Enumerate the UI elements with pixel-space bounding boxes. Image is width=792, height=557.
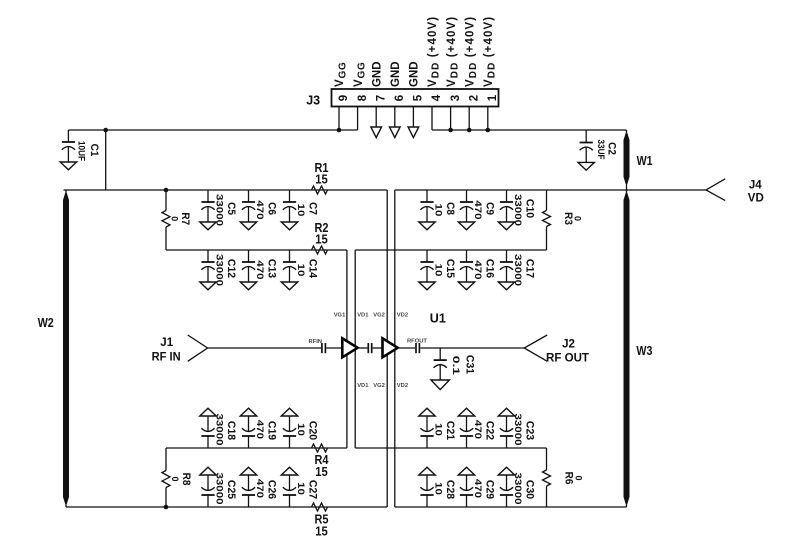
svg-text:10: 10 <box>433 204 443 217</box>
wire bottom rail left (row 5) <box>66 506 387 508</box>
capacitor C14 <box>281 250 318 290</box>
resistor R8 <box>162 448 192 507</box>
capacitor C12 <box>200 250 237 290</box>
wire net VD1 vertical <box>354 250 356 448</box>
svg-text:470: 470 <box>473 260 483 279</box>
svg-text:C26: C26 <box>266 480 278 499</box>
junction pin 1 <box>486 128 491 133</box>
svg-text:10: 10 <box>296 204 306 217</box>
capacitor C10 <box>498 190 535 230</box>
junction R7 top <box>164 188 169 193</box>
resistor R4 <box>312 444 329 479</box>
wire pin 7 stub <box>375 107 377 128</box>
connector J4 <box>706 179 764 205</box>
capacitor C23 <box>498 408 535 448</box>
wire RF output <box>420 347 524 349</box>
resistor R3 <box>543 190 583 250</box>
wire rail row 4 right <box>355 447 546 449</box>
wire VG rail left (row 2) <box>64 189 388 191</box>
capacitor C21 <box>419 408 456 448</box>
svg-text:C13: C13 <box>266 259 278 278</box>
svg-text:C28: C28 <box>444 480 456 499</box>
wire pin 2 stub <box>468 107 470 131</box>
svg-text:0: 0 <box>170 476 180 481</box>
resistor R7 <box>162 190 191 250</box>
svg-text:RF OUT: RF OUT <box>546 352 589 364</box>
svg-text:C17: C17 <box>524 259 536 278</box>
wire pin 6 stub <box>394 107 396 128</box>
svg-text:33000: 33000 <box>513 194 523 226</box>
wire W3 thick bar <box>624 193 630 200</box>
svg-text:C9: C9 <box>484 202 496 215</box>
svg-text:10: 10 <box>433 423 443 436</box>
svg-text:15: 15 <box>315 233 328 247</box>
capacitor C1 <box>60 130 100 170</box>
capacitor C18 <box>200 408 237 448</box>
capacitor C16 <box>458 250 495 290</box>
svg-text:J1: J1 <box>160 337 173 349</box>
capacitor C19 <box>240 408 277 448</box>
connector J1 <box>152 335 208 363</box>
capacitor RF input blocking <box>322 343 326 353</box>
svg-text:C22: C22 <box>484 421 496 440</box>
svg-text:C20: C20 <box>307 421 319 440</box>
svg-text:J3: J3 <box>306 94 320 108</box>
capacitor C30 <box>498 467 535 507</box>
svg-text:C1: C1 <box>88 144 100 157</box>
wire VDD rail top right <box>432 129 627 131</box>
svg-text:10: 10 <box>433 482 443 495</box>
resistor R5 <box>312 503 329 539</box>
svg-text:0.1: 0.1 <box>451 356 461 375</box>
resistor R2 <box>312 221 329 254</box>
svg-text:C31: C31 <box>463 355 475 374</box>
svg-text:C14: C14 <box>307 259 319 279</box>
svg-text:C29: C29 <box>484 480 496 499</box>
svg-text:C2: C2 <box>605 142 617 155</box>
wire VGG rail top left <box>68 129 357 131</box>
wire VD1 rail right (row 3) <box>355 249 546 251</box>
capacitor C27 <box>281 467 318 507</box>
wire pin 9 stub <box>338 107 340 131</box>
svg-text:C7: C7 <box>307 202 319 215</box>
svg-text:GND: GND <box>409 61 421 87</box>
svg-text:VG1: VG1 <box>334 312 346 318</box>
svg-text:470: 470 <box>255 420 265 439</box>
svg-text:10: 10 <box>296 264 306 277</box>
svg-text:C19: C19 <box>266 421 278 440</box>
svg-text:VD2: VD2 <box>397 383 408 389</box>
svg-text:R7: R7 <box>179 212 191 225</box>
svg-text:VD: VD <box>748 193 764 205</box>
svg-text:470: 470 <box>255 200 265 219</box>
capacitor C8 <box>419 190 456 230</box>
wire W3 stem <box>626 190 628 507</box>
svg-text:15: 15 <box>315 465 328 479</box>
wire W1 stem <box>626 130 628 190</box>
wire net VD2 vertical <box>394 190 396 507</box>
svg-text:15: 15 <box>315 525 328 539</box>
svg-text:470: 470 <box>473 420 483 439</box>
svg-text:4: 4 <box>431 94 443 101</box>
svg-text:C25: C25 <box>225 480 237 499</box>
svg-text:10UF: 10UF <box>77 141 87 161</box>
capacitor C25 <box>200 467 237 507</box>
svg-text:VD1: VD1 <box>357 312 369 318</box>
svg-text:C10: C10 <box>524 199 536 218</box>
ground pin 5 <box>408 127 419 138</box>
svg-text:33000: 33000 <box>513 473 523 505</box>
svg-text:2: 2 <box>468 95 480 101</box>
svg-text:W1: W1 <box>637 154 653 168</box>
svg-text:W3: W3 <box>636 344 652 358</box>
resistor R6 <box>543 448 584 507</box>
wire W1 thick bar <box>624 133 630 140</box>
svg-text:10: 10 <box>433 264 443 277</box>
junction VGG feed <box>103 128 108 133</box>
svg-text:33000: 33000 <box>214 414 224 446</box>
capacitor C26 <box>240 467 277 507</box>
wire W2 stem <box>65 190 67 507</box>
svg-text:C21: C21 <box>444 421 456 440</box>
svg-text:R8: R8 <box>180 473 192 486</box>
svg-text:J2: J2 <box>562 338 575 350</box>
svg-text:470: 470 <box>473 479 483 498</box>
svg-text:6: 6 <box>394 95 406 101</box>
svg-text:33000: 33000 <box>214 254 224 286</box>
wire VGG feed down <box>105 130 107 190</box>
wire rail row 4 left <box>166 447 347 449</box>
wire pin 1 stub <box>487 107 489 131</box>
svg-text:GND: GND <box>390 61 402 87</box>
svg-text:VG2: VG2 <box>373 312 385 318</box>
svg-text:C18: C18 <box>225 421 237 440</box>
svg-text:33UF: 33UF <box>596 140 606 160</box>
connector J2 <box>524 335 589 364</box>
svg-text:7: 7 <box>375 95 387 101</box>
capacitor C9 <box>458 190 495 230</box>
svg-text:5: 5 <box>413 94 425 101</box>
wire to second stage <box>373 347 383 349</box>
ground pin 6 <box>390 127 401 138</box>
svg-text:10: 10 <box>296 423 306 436</box>
ground pin 7 <box>371 127 382 138</box>
connector J3 <box>306 89 498 108</box>
svg-text:0: 0 <box>574 475 584 480</box>
svg-text:33000: 33000 <box>214 194 224 226</box>
svg-text:VD1: VD1 <box>357 383 369 389</box>
capacitor C15 <box>419 250 456 290</box>
capacitor C29 <box>458 467 495 507</box>
svg-text:C16: C16 <box>484 259 496 278</box>
svg-text:VG2: VG2 <box>373 383 385 389</box>
capacitor C22 <box>458 408 495 448</box>
svg-text:33000: 33000 <box>214 473 224 505</box>
junction pin 2 <box>467 128 472 133</box>
svg-text:VD2: VD2 <box>397 312 408 318</box>
capacitor C20 <box>281 408 318 448</box>
wire VG1 rail left (row 3) <box>166 249 347 251</box>
wire RF out of stage 2 <box>398 347 415 349</box>
wire interstage <box>358 347 368 349</box>
svg-text:470: 470 <box>255 479 265 498</box>
svg-text:C15: C15 <box>444 259 456 278</box>
svg-text:9: 9 <box>338 95 350 101</box>
capacitor interstage <box>368 343 371 353</box>
svg-text:W2: W2 <box>38 316 54 330</box>
wire VD rail right (row 2) to J4 <box>395 189 706 191</box>
wire RF input <box>208 347 321 349</box>
svg-text:33000: 33000 <box>513 254 523 286</box>
svg-text:10: 10 <box>296 482 306 495</box>
svg-text:33000: 33000 <box>513 414 523 446</box>
capacitor C28 <box>419 467 456 507</box>
svg-text:C27: C27 <box>307 480 319 499</box>
capacitor C31 <box>431 348 475 390</box>
svg-text:470: 470 <box>255 260 265 279</box>
svg-text:C30: C30 <box>524 480 536 499</box>
svg-text:3: 3 <box>450 95 462 101</box>
wire pin 5 stub <box>412 107 414 128</box>
svg-text:RFIN: RFIN <box>308 339 322 345</box>
svg-text:8: 8 <box>357 94 369 101</box>
svg-text:C5: C5 <box>225 202 237 215</box>
junction pin 3 <box>448 128 453 133</box>
junction pin 9 <box>337 128 342 133</box>
svg-text:C8: C8 <box>444 202 456 215</box>
capacitor C13 <box>240 250 277 290</box>
svg-text:C23: C23 <box>524 421 536 440</box>
amplifier stage 2 of U1 <box>383 338 398 357</box>
svg-text:J4: J4 <box>749 179 762 191</box>
capacitor C5 <box>200 190 237 230</box>
capacitor C6 <box>240 190 277 230</box>
svg-text:GND: GND <box>371 61 383 87</box>
wire pin 3 stub <box>450 107 452 131</box>
svg-text:U1: U1 <box>430 312 446 326</box>
svg-text:0: 0 <box>573 216 583 221</box>
svg-text:1: 1 <box>487 94 499 101</box>
svg-text:RFOUT: RFOUT <box>407 339 427 345</box>
svg-text:RF IN: RF IN <box>152 351 181 363</box>
capacitor C17 <box>498 250 535 290</box>
svg-text:R6: R6 <box>563 472 575 485</box>
svg-text:C6: C6 <box>266 202 278 215</box>
svg-text:15: 15 <box>315 173 328 187</box>
capacitor C7 <box>281 190 318 230</box>
svg-text:470: 470 <box>473 200 483 219</box>
wire bottom rail right (row 5) <box>395 506 627 508</box>
resistor R1 <box>312 161 329 194</box>
wire pin 4 stub <box>431 107 433 131</box>
svg-text:C12: C12 <box>225 259 237 278</box>
wire net VG2 vertical <box>386 190 388 507</box>
capacitor C2 <box>578 130 617 170</box>
svg-text:R3: R3 <box>562 212 574 225</box>
junction R8 bottom <box>164 505 169 510</box>
wire pin 8 stub <box>357 107 359 131</box>
svg-text:0: 0 <box>170 216 180 221</box>
capacitor RF output blocking <box>416 343 419 353</box>
wire W2 thick bar <box>63 193 69 200</box>
amplifier stage 1 of U1 <box>342 338 357 357</box>
wire to first stage <box>326 347 342 349</box>
wire net VG1 vertical <box>346 250 348 448</box>
